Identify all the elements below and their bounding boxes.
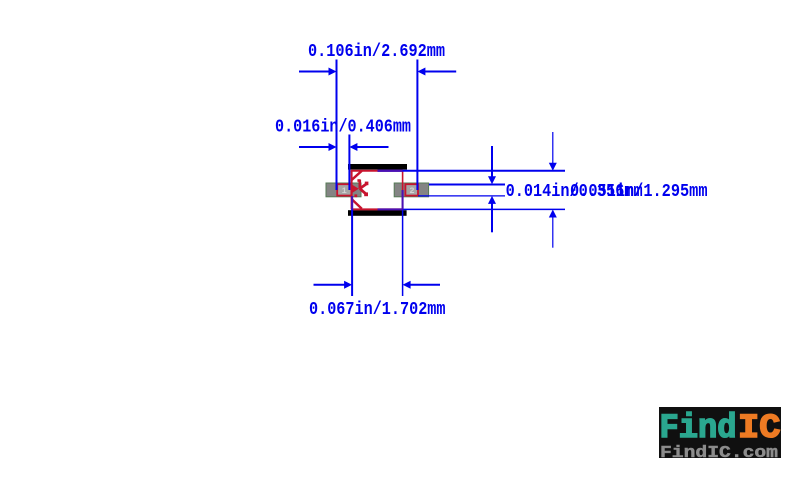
svg-text:0.106in/2.692mm: 0.106in/2.692mm	[308, 41, 445, 62]
svg-text:0.016in/0.406mm: 0.016in/0.406mm	[275, 117, 411, 138]
svg-text:2: 2	[409, 186, 414, 196]
svg-text:0.067in/1.702mm: 0.067in/1.702mm	[309, 299, 446, 320]
svg-text:0.051in/1.295mm: 0.051in/1.295mm	[570, 181, 708, 202]
svg-text:FindIC.com: FindIC.com	[660, 443, 778, 462]
svg-text:1: 1	[342, 186, 347, 196]
